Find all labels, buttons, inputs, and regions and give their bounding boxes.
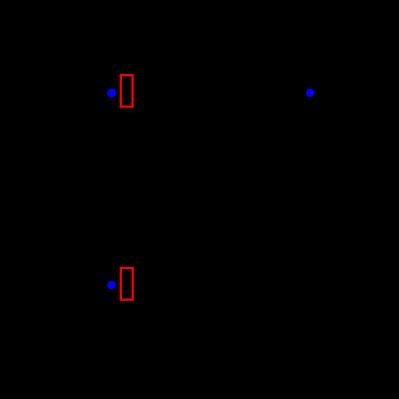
junction node on right-hand net: [306, 89, 314, 97]
junction node at R1 left pin: [107, 89, 116, 98]
junction node at R2 left pin: [107, 281, 116, 290]
resistor R2 (red rectangle body, bottom): [121, 268, 133, 300]
resistor R1 (red rectangle body, top): [121, 75, 133, 106]
